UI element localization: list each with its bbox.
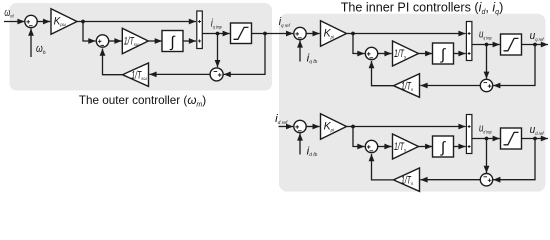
wire Kpi to summing box top d: [347, 124, 466, 130]
S-in plus sign q: [295, 32, 299, 36]
summing junction S2: [96, 35, 108, 47]
wire integrator to summing box bottom input: [183, 38, 196, 44]
anti-windup gain block 1/T_s q: [394, 74, 420, 98]
wire omega_ref input: [4, 19, 25, 25]
S6 plus sign d: [488, 179, 492, 183]
wire integrator to summing box bottom q: [454, 51, 466, 57]
junction J6 d: [533, 137, 537, 141]
gain block K_pi d: [321, 114, 347, 140]
wire omega_fb feedback input: [28, 29, 34, 57]
junction J6 q: [533, 43, 537, 47]
junction J5 q: [485, 43, 489, 47]
S-in plus sign d: [295, 125, 299, 129]
svg-text:The inner PI controllers (id,: The inner PI controllers (id, iq): [341, 1, 504, 16]
summing box plus top d: [468, 125, 471, 128]
summing box plus bottom q: [468, 52, 471, 55]
S5 minus sign q: [370, 57, 374, 59]
wire 1/Ts to integrator q: [419, 51, 433, 57]
wire saturation to output u_q_ref q: [522, 42, 549, 48]
wire J5 down to S6 d: [484, 139, 490, 174]
gain block K_pi q: [321, 21, 347, 47]
junction J4 q: [351, 32, 355, 36]
wire Kpw to summing box top input: [77, 19, 196, 25]
S6 minus sign d: [484, 176, 488, 178]
wire anti-windup to S2 bottom: [100, 49, 123, 75]
summing junction S5 d: [365, 140, 377, 152]
inner controllers background panel: [279, 14, 546, 192]
wire J4 down to S5 q: [353, 34, 365, 57]
junction J3: [263, 32, 267, 36]
S5 minus sign d: [370, 150, 374, 152]
wire J6 down to S6 right input d: [493, 139, 535, 183]
wire J3 down to S3 right input: [224, 34, 265, 78]
wire saturation to output u_d_ref d: [522, 136, 549, 142]
wire S5 to 1/Ts d: [378, 144, 392, 150]
wire J5 down to S6 q: [484, 45, 490, 79]
integrator block outer: [162, 31, 183, 52]
wire J1 down to S2: [83, 22, 96, 44]
S1 plus sign: [26, 20, 30, 24]
wire integrator to summing box bottom d: [454, 144, 466, 150]
wire S5 to 1/Ts q: [378, 51, 392, 57]
summing box plus top q: [468, 32, 471, 35]
wire J4 down to S5 d: [353, 127, 365, 150]
wire S6 to anti-windup gain d: [420, 177, 480, 183]
saturation curve outer: [234, 27, 249, 39]
wire S-in to Kpi d: [306, 124, 320, 130]
S2 plus sign: [98, 40, 102, 44]
S-in minus sign q: [298, 37, 302, 39]
wire summing box to saturation q: [472, 42, 500, 48]
wire i_d_fb feedback input d: [297, 133, 303, 154]
wire J2 down to S3: [215, 34, 221, 68]
summing box plus bottom d: [468, 145, 471, 148]
saturation block q: [501, 34, 522, 55]
saturation curve q: [504, 38, 519, 50]
integrator block q: [433, 43, 454, 64]
anti-windup gain block 1/T_sw outer: [123, 63, 149, 86]
junction J5 d: [485, 137, 489, 141]
wire saturation to inner q input i_q_ref: [252, 31, 294, 37]
summing junction S-in d: [294, 120, 306, 132]
wire S6 to anti-windup gain q: [420, 83, 480, 89]
svg-text:The outer controller (ωm): The outer controller (ωm): [79, 94, 206, 108]
anti-windup gain block 1/T_s d: [394, 168, 420, 192]
summing box plus top: [198, 20, 201, 23]
wire 1/Tsw to integrator: [148, 38, 162, 44]
wire summing box to saturation: [202, 31, 230, 37]
integrator block d: [433, 136, 454, 157]
S1 minus sign: [29, 25, 33, 27]
S-in minus sign d: [298, 130, 302, 132]
summing junction S5 q: [365, 47, 377, 59]
junction J2: [216, 32, 220, 36]
wire Kpi to summing box top q: [347, 31, 466, 37]
wire S2 to 1/Tsw: [109, 38, 122, 44]
junction J4 d: [351, 125, 355, 129]
wire 1/Ts to integrator d: [419, 144, 433, 150]
integrator gain block 1/T_s d: [393, 134, 419, 159]
S5 plus sign d: [367, 145, 371, 149]
summing junction S-in q: [294, 27, 306, 39]
summing junction S6 anti-windup d: [480, 174, 492, 186]
summing junction S1: [25, 15, 37, 27]
summing box plus bottom: [198, 40, 201, 43]
saturation block outer: [231, 23, 252, 44]
wire anti-windup to S5 bottom d: [369, 154, 394, 180]
wire anti-windup to S5 bottom q: [369, 61, 394, 86]
S6 plus sign q: [488, 84, 492, 88]
wire summing box to saturation d: [472, 136, 500, 142]
wire S-in to Kpi q: [306, 31, 320, 37]
wire i_d_ref input: [279, 124, 294, 130]
S2 minus sign: [101, 44, 105, 46]
junction J1: [81, 20, 85, 24]
S3 minus sign: [214, 71, 218, 73]
outer controller background panel: [10, 3, 273, 91]
saturation block d: [501, 128, 522, 149]
gain block K_pw: [51, 9, 77, 35]
integrator gain block 1/T_s q: [393, 41, 419, 66]
summing junction S6 anti-windup q: [480, 79, 492, 91]
saturation curve d: [504, 132, 519, 144]
summing box q: [466, 22, 472, 61]
S5 plus sign q: [367, 52, 371, 56]
summing box d: [466, 115, 472, 154]
S6 minus sign q: [484, 82, 488, 84]
integrator gain block 1/T_sw: [122, 28, 148, 54]
summing box outer: [197, 11, 203, 49]
wire S1 to Kpw: [37, 19, 50, 25]
summing junction S3 anti-windup outer: [210, 68, 223, 81]
wire S3 to anti-windup gain: [149, 72, 210, 78]
S3 plus sign: [218, 73, 222, 77]
wire i_q_fb feedback input q: [297, 40, 303, 61]
wire J6 down to S6 right input q: [493, 45, 535, 89]
